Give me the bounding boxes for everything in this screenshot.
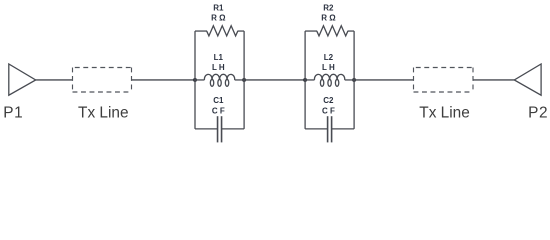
svg-text:L1: L1 (214, 53, 224, 62)
wire tank 2 to Tx Line 2 (354, 79, 413, 81)
wire P1 to Tx Line 1 (36, 79, 73, 81)
wire tank 1 to tank 2 (244, 79, 305, 81)
svg-text:L H: L H (322, 63, 335, 72)
capacitor C2 (305, 128, 328, 130)
svg-text:Tx Line: Tx Line (78, 105, 128, 122)
node N1B (tank 1 right junction) (242, 78, 246, 82)
svg-text:P1: P1 (3, 105, 23, 122)
svg-text:R Ω: R Ω (321, 13, 336, 22)
node N2B (tank 2 right junction) (352, 78, 356, 82)
svg-text:Tx Line: Tx Line (419, 105, 469, 122)
port P1 (input port symbol) (9, 64, 36, 95)
inductor L1 (195, 79, 204, 81)
wire tank 1 left vertical branch (194, 31, 196, 129)
svg-text:L2: L2 (324, 53, 334, 62)
svg-text:L H: L H (212, 63, 225, 72)
svg-text:R Ω: R Ω (211, 13, 226, 22)
inductor L2 (305, 79, 314, 81)
svg-text:C2: C2 (323, 96, 334, 105)
Tx Line 2 (transmission line block, dashed) (414, 67, 474, 69)
svg-text:C1: C1 (213, 96, 224, 105)
wire Tx Line 2 to P2 (473, 79, 514, 81)
node N2A (tank 2 left junction) (303, 78, 307, 82)
wire tank 1 right vertical branch (243, 31, 245, 129)
wire Tx Line 1 to tank 1 (132, 79, 196, 81)
Tx Line 1 (transmission line block, dashed) (73, 67, 132, 69)
capacitor C1 (195, 128, 218, 130)
resistor R1 (195, 30, 207, 32)
svg-text:C F: C F (322, 106, 335, 115)
svg-text:C F: C F (212, 106, 225, 115)
node N1A (tank 1 left junction) (193, 78, 197, 82)
resistor R2 (305, 30, 317, 32)
wire tank 2 left vertical branch (304, 31, 306, 129)
wire tank 2 right vertical branch (353, 31, 355, 129)
svg-text:R1: R1 (213, 3, 224, 12)
port P2 (output port symbol) (514, 64, 541, 95)
svg-text:P2: P2 (528, 105, 548, 122)
svg-text:R2: R2 (323, 3, 334, 12)
